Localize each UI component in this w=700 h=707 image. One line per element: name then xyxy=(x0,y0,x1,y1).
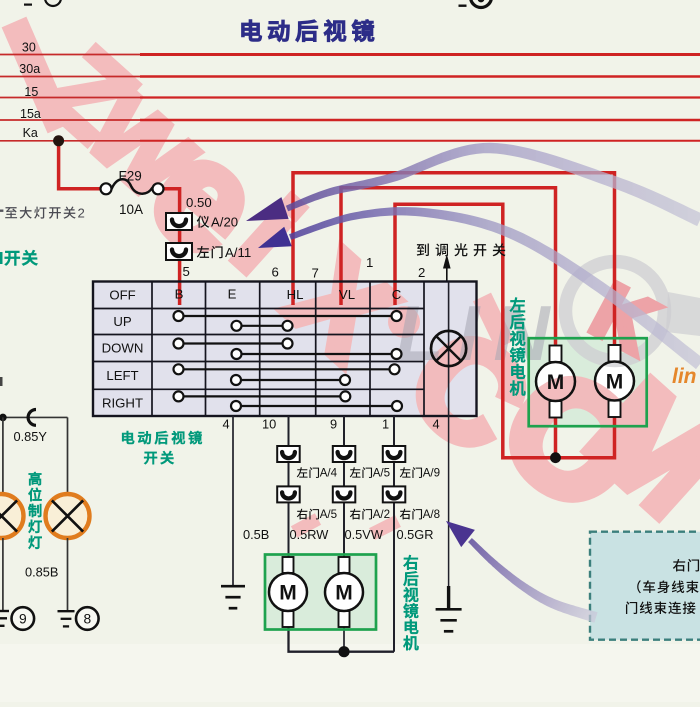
svg-text:M: M xyxy=(279,582,297,605)
svg-text:VL: VL xyxy=(339,287,355,302)
svg-text:F29: F29 xyxy=(119,169,142,184)
svg-text:B: B xyxy=(175,287,184,302)
svg-text:2: 2 xyxy=(78,206,85,221)
svg-text:UP: UP xyxy=(113,314,132,329)
svg-text:M: M xyxy=(547,371,565,394)
svg-text:A/9: A/9 xyxy=(423,467,440,480)
svg-text:15a: 15a xyxy=(20,107,41,121)
svg-text:1: 1 xyxy=(366,255,373,270)
svg-text:30: 30 xyxy=(22,41,36,55)
svg-text:M: M xyxy=(606,371,624,394)
svg-text:9: 9 xyxy=(330,417,337,432)
svg-text:A/20: A/20 xyxy=(211,215,238,230)
svg-text:0.85Y: 0.85Y xyxy=(14,429,48,444)
svg-text:A/8: A/8 xyxy=(423,508,440,521)
svg-text:10A: 10A xyxy=(119,202,143,217)
svg-text:0.50: 0.50 xyxy=(186,195,212,210)
svg-text:8: 8 xyxy=(83,612,91,627)
svg-text:HL: HL xyxy=(287,287,304,302)
svg-text:LIN: LIN xyxy=(396,289,564,377)
svg-text:A/2: A/2 xyxy=(373,508,390,521)
svg-text:6: 6 xyxy=(272,265,279,280)
svg-text:M: M xyxy=(335,582,353,605)
svg-text:0.5RW: 0.5RW xyxy=(290,527,330,542)
svg-text:C: C xyxy=(392,287,402,302)
svg-text:5: 5 xyxy=(183,264,190,279)
svg-text:15: 15 xyxy=(24,85,38,99)
svg-text:0.5VW: 0.5VW xyxy=(345,527,384,542)
svg-text:OFF: OFF xyxy=(109,288,135,303)
svg-text:0.85B: 0.85B xyxy=(25,565,58,580)
svg-text:30a: 30a xyxy=(19,62,40,76)
svg-text:9: 9 xyxy=(19,612,27,627)
svg-text:E: E xyxy=(228,287,237,302)
svg-text:A/11: A/11 xyxy=(225,245,251,260)
svg-text:7: 7 xyxy=(312,266,319,281)
svg-text:A/4: A/4 xyxy=(320,467,338,480)
svg-text:2: 2 xyxy=(418,265,425,280)
svg-text:0.5B: 0.5B xyxy=(243,527,269,542)
svg-text:Ka: Ka xyxy=(23,126,38,140)
svg-text:4: 4 xyxy=(223,417,230,432)
svg-text:4: 4 xyxy=(433,417,440,432)
svg-text:10: 10 xyxy=(262,417,276,432)
svg-text:A/5: A/5 xyxy=(373,467,390,480)
svg-text:DOWN: DOWN xyxy=(102,341,144,356)
svg-text:A/5: A/5 xyxy=(320,508,337,521)
svg-text:1: 1 xyxy=(382,417,389,432)
svg-text:0.5GR: 0.5GR xyxy=(397,527,434,542)
svg-text:RIGHT: RIGHT xyxy=(102,396,143,411)
svg-text:lin: lin xyxy=(672,365,697,388)
svg-text:LEFT: LEFT xyxy=(106,368,138,383)
